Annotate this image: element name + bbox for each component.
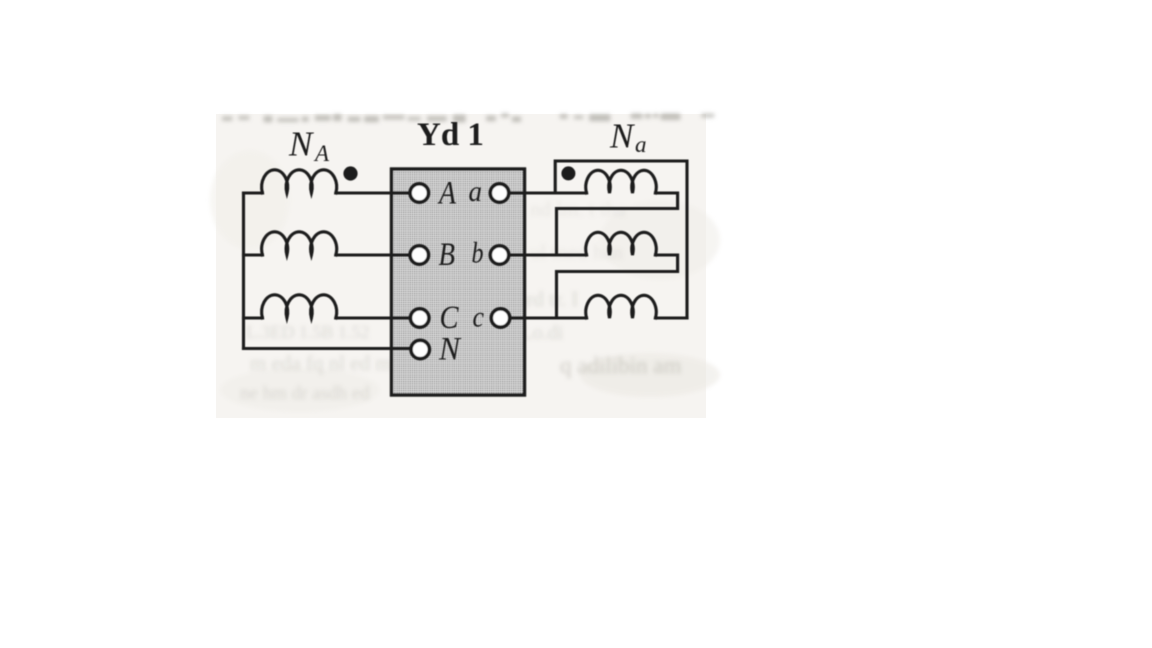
inductor primary winding C [262,295,337,318]
svg-text:A: A [437,176,456,212]
primary winding label NA [288,125,330,167]
wire winding c to right link [656,316,688,319]
svg-text:b: b [472,236,484,269]
svg-text:q adilibin am: q adilibin am [560,353,681,378]
svg-text:Yd 1: Yd 1 [417,117,484,153]
polarity dot primary [343,166,357,180]
svg-text:L.3ED 1.5B 1.52: L.3ED 1.5B 1.52 [246,322,370,342]
wire link winding a to terminal b [557,193,678,255]
terminal B [410,246,428,264]
wire link winding b to terminal c [557,255,678,318]
terminal box Yd1 [392,169,525,395]
wire secondary phase b [507,253,587,256]
svg-text:B: B [439,237,456,273]
inductor secondary winding b [586,232,656,255]
terminal A [410,184,428,202]
svg-text:N: N [609,117,635,156]
wire phase A primary [244,191,413,194]
terminal N [411,340,429,358]
svg-text:A: A [313,141,330,166]
svg-text:N: N [288,125,314,164]
wire delta closing link top [555,161,687,318]
wire phase C primary [244,316,413,319]
svg-text:c: c [473,301,485,334]
svg-text:ne hm dr asdh ed: ne hm dr asdh ed [240,383,370,404]
label Yd 1 [417,117,484,153]
pin label c [473,301,485,334]
inductor secondary winding c [586,295,656,318]
wire secondary phase a [507,191,587,194]
svg-text:a: a [469,175,483,208]
inductor primary winding B [262,232,337,255]
terminal b [490,246,508,264]
terminal a [490,184,508,202]
inductor primary winding A [262,170,337,193]
terminal C [411,309,429,327]
inductor secondary winding a [586,170,656,193]
pin label B [439,237,456,273]
svg-text:N: N [438,332,462,368]
svg-text:m eda fq nl ed ma: m eda fq nl ed ma [250,351,402,375]
wire neutral N [244,347,414,350]
polarity dot secondary [561,166,575,180]
wire left bus (wye neutral bus) [242,193,245,349]
pin label A [437,176,456,212]
svg-text:a: a [635,132,647,157]
pin label b [472,236,484,269]
pin label a [469,175,483,208]
secondary winding label Na [609,117,647,158]
pin label C [440,300,460,336]
wire secondary phase c [507,316,587,319]
terminal c [491,309,509,327]
pin label N [438,332,462,368]
wire phase B primary [244,253,413,256]
